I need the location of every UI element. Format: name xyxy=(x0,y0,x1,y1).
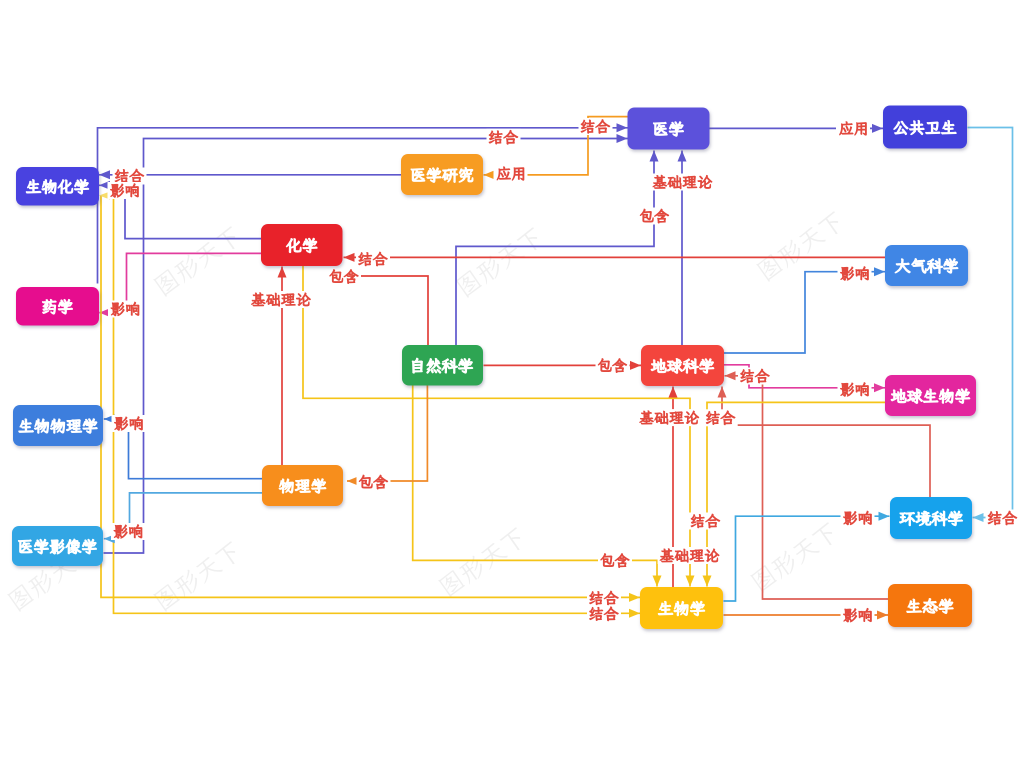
wire 环境科学→地球科学 结合 xyxy=(718,387,931,498)
wire 自然科学→地球科学 包含 xyxy=(484,361,642,370)
label 基础理论 on 地球科学→医学 基础理论 xyxy=(651,174,715,191)
label 基础理论 on 化学→生物学 基础理论 xyxy=(658,547,722,564)
wire 物理学→医学影像学 影响 xyxy=(104,493,262,543)
wire 生态学→地球科学 结合 xyxy=(725,371,889,599)
wire 大气科学→化学 结合 xyxy=(344,253,886,262)
watermark xyxy=(153,540,243,613)
wire 医学→公共卫生 应用 xyxy=(710,124,884,133)
wire 自然科学→化学 包含 xyxy=(340,269,428,346)
wire 地球科学→医学 基础理论 xyxy=(678,151,687,346)
wire 生物学→地球科学 基础理论 xyxy=(669,387,678,588)
wire 药学→医学 结合 xyxy=(98,123,628,283)
node 生物物理学 xyxy=(13,405,103,446)
wire 生物化学→生物学 结合 B xyxy=(114,197,641,618)
node 化学 xyxy=(261,224,343,266)
node 地球科学 xyxy=(641,345,724,386)
label 影响 on 物理学→生物物理学 影响 xyxy=(112,415,146,432)
label 结合 on 医学研究→生物化学 结合 xyxy=(113,168,147,185)
junction wedge at 生物化学 xyxy=(99,192,110,200)
watermark xyxy=(7,540,97,613)
wire 公共卫生→环境科学 结合 xyxy=(968,128,1013,523)
label 结合 on 生物化学→生物学 结合 B xyxy=(587,605,621,622)
label 结合 on 生物化学→生物学 结合 A xyxy=(587,590,621,607)
wire 化学→生物化学 影响 xyxy=(99,181,261,239)
label 结合 on 药学→医学 结合 xyxy=(579,118,613,135)
wire 生物化学→生物学 结合 A xyxy=(101,196,640,602)
node 药学 xyxy=(16,287,99,326)
label 结合 on 环境科学→地球科学 结合 xyxy=(704,409,738,426)
wire 物理学→化学 基础理论 xyxy=(278,267,287,466)
wire 医学影像学→医学 结合 xyxy=(104,134,628,553)
wire 生物学→生态学 影响 xyxy=(724,611,889,620)
label 影响 on 地球科学→地球生物学 影响 xyxy=(838,381,872,398)
label 包含 on 自然科学→物理学 包含 xyxy=(357,474,391,491)
node 生物学 xyxy=(640,587,723,629)
wire 地球科学→地球生物学 影响 xyxy=(724,365,885,393)
label 影响 on 生物学→环境科学 影响 xyxy=(841,510,875,527)
label 应用 on 医学→医学研究 应用 xyxy=(494,165,528,182)
label 包含 on 自然科学→生物学 包含 xyxy=(598,552,632,569)
label 影响 on 生物学→生态学 影响 xyxy=(841,607,875,624)
wire 医学研究→生物化学 结合 xyxy=(99,170,401,179)
label 包含 on 自然科学→医学 包含 xyxy=(638,208,672,225)
wire 自然科学→物理学 包含 xyxy=(347,386,427,486)
label 影响 on 地球科学→大气科学 影响 xyxy=(838,265,872,282)
watermark xyxy=(438,526,528,599)
node 医学影像学 xyxy=(12,526,103,566)
label 结合 on 生态学→地球科学 结合 xyxy=(738,368,772,385)
watermark xyxy=(455,226,545,299)
watermark xyxy=(756,210,846,283)
label 包含 on 自然科学→地球科学 包含 xyxy=(596,357,630,374)
wire 生物学→环境科学 影响 xyxy=(724,512,890,601)
wire 化学→生物学 基础理论 xyxy=(303,266,695,587)
wire 自然科学→生物学 包含 xyxy=(413,386,662,587)
wire 地球科学→大气科学 影响 xyxy=(724,267,885,353)
node 医学 xyxy=(628,108,710,150)
label 结合 on 公共卫生→环境科学 结合 xyxy=(986,510,1020,527)
node 自然科学 xyxy=(402,345,483,386)
label 影响 on 物理学→医学影像学 影响 xyxy=(111,523,145,540)
label 结合 on 大气科学→化学 结合 xyxy=(356,251,390,268)
node 地球生物学 xyxy=(885,375,976,416)
label 结合 on 地球生物学→生物学 结合 xyxy=(689,513,723,530)
watermark xyxy=(153,225,243,298)
watermark xyxy=(750,521,840,594)
label 影响 on 化学→生物化学 影响 xyxy=(108,182,142,199)
label 包含 on 自然科学→化学 包含 xyxy=(327,268,361,285)
label 结合 on 医学影像学→医学 结合 xyxy=(487,129,521,146)
wire 化学→药学 影响 xyxy=(99,253,261,317)
wire 物理学→生物物理学 影响 xyxy=(104,415,262,479)
node 大气科学 xyxy=(885,245,968,286)
node 生态学 xyxy=(888,584,972,627)
node 公共卫生 xyxy=(883,106,967,149)
node 环境科学 xyxy=(890,497,972,539)
node 生物化学 xyxy=(16,167,99,206)
node 医学研究 xyxy=(401,154,483,195)
label 基础理论 on 生物学→地球科学 基础理论 xyxy=(637,409,701,426)
label 影响 on 化学→药学 影响 xyxy=(108,301,142,318)
wire 地球生物学→生物学 结合 xyxy=(703,402,886,586)
label 应用 on 医学→公共卫生 应用 xyxy=(836,120,870,137)
label 基础理论 on 物理学→化学 基础理论 xyxy=(249,291,313,308)
wire 自然科学→医学 包含 xyxy=(456,151,659,346)
node 物理学 xyxy=(262,465,343,506)
wire 医学→医学研究 应用 xyxy=(484,117,628,180)
